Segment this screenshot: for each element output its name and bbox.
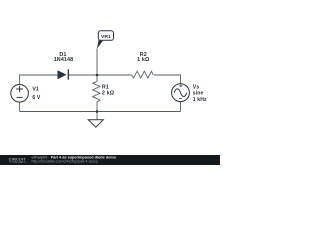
- svg-text:LAB: LAB: [16, 160, 23, 164]
- svg-text:6 V: 6 V: [32, 95, 40, 101]
- svg-text:1N4148: 1N4148: [54, 57, 74, 63]
- svg-text:http://circuitlab.com/c/4vr2kp: http://circuitlab.com/c/4vr2kp/part-4-ac…: [32, 160, 99, 164]
- svg-text:R1: R1: [102, 84, 109, 90]
- svg-text:2 kΩ: 2 kΩ: [102, 90, 115, 96]
- svg-text:1 kΩ: 1 kΩ: [137, 57, 150, 63]
- svg-text:VR1: VR1: [101, 34, 111, 40]
- svg-text:sine: sine: [193, 91, 204, 97]
- svg-text:V1: V1: [32, 87, 39, 93]
- svg-text:1 kHz: 1 kHz: [193, 97, 207, 103]
